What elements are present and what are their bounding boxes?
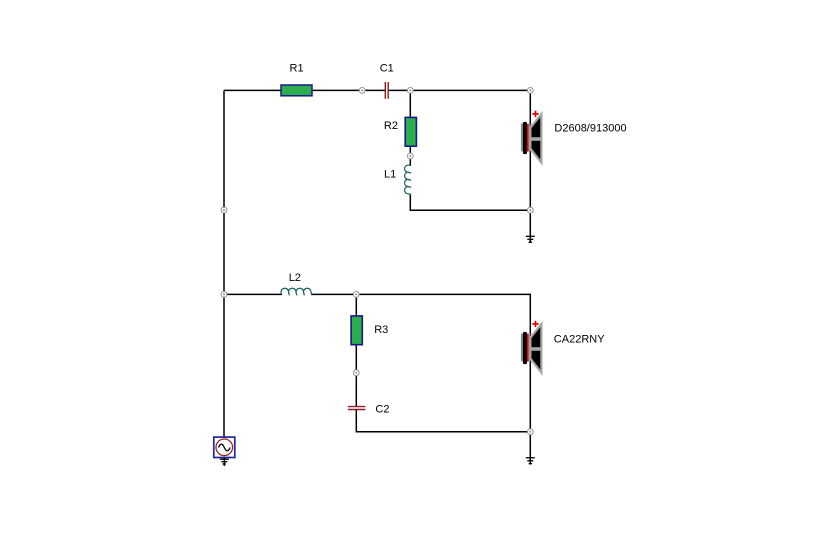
wire: woofer bottom node to ground	[529, 432, 531, 465]
svg-text:L2: L2	[289, 272, 301, 284]
wire: R2 to node C	[409, 146, 411, 156]
svg-text:D2608/913000: D2608/913000	[554, 123, 626, 135]
node: left rail mid	[221, 207, 227, 213]
wire: left rail bottom segment to source	[223, 294, 225, 437]
wire: node D down to R3	[355, 294, 357, 316]
AC source V1	[214, 437, 235, 457]
wire: L2 branch node to L2	[224, 293, 282, 295]
node: tweeter top	[527, 88, 533, 94]
wire: node E to C2	[355, 373, 357, 407]
node B	[407, 88, 413, 94]
wire: node B to tweeter top node	[410, 89, 530, 91]
wire: L1 down and right to tweeter bottom node	[410, 194, 530, 210]
node: left rail / L2 branch	[221, 292, 227, 298]
capacitor C2	[348, 407, 365, 410]
wire top rail: left corner to R1	[224, 89, 282, 91]
wire: tweeter vertical (top node to bottom node)	[529, 90, 531, 210]
svg-text:C1: C1	[380, 63, 394, 75]
node D (R3 branch)	[353, 292, 359, 298]
resistor R3	[351, 316, 362, 345]
svg-text:C2: C2	[375, 404, 389, 416]
speaker LS2 (woofer)	[521, 321, 542, 373]
node C (between R2 and L1)	[407, 153, 413, 159]
wire: node C to L1	[409, 156, 411, 166]
node: woofer bottom junction	[527, 429, 533, 435]
node: tweeter bottom junction	[527, 207, 533, 213]
wire: node D to woofer top corner and down	[356, 294, 530, 431]
svg-text:CA22RNY: CA22RNY	[554, 333, 605, 345]
speaker LS1 (tweeter)	[521, 111, 542, 163]
inductor L1	[405, 165, 412, 194]
svg-text:R2: R2	[384, 120, 398, 132]
wire: tweeter bottom node to ground	[529, 210, 531, 243]
svg-text:R1: R1	[290, 63, 304, 75]
node A	[359, 88, 365, 94]
wire: node B down to R2	[409, 90, 411, 117]
capacitor C1	[385, 82, 388, 99]
node E (between R3 and C2)	[353, 370, 359, 376]
wire: left rail top segment	[223, 90, 225, 210]
wire: left rail second segment	[223, 210, 225, 294]
ground (AC source)	[220, 457, 229, 466]
wire: R3 to node E	[355, 345, 357, 373]
ground (woofer)	[526, 458, 535, 464]
wire: C1 to node B	[388, 89, 410, 91]
inductor L2	[281, 288, 312, 295]
wire: C2 down and right to woofer bottom node	[356, 410, 530, 432]
svg-text:R3: R3	[374, 324, 388, 336]
resistor R2	[405, 117, 416, 146]
wire: L2 to node D	[312, 293, 357, 295]
resistor R1	[281, 85, 312, 96]
svg-text:L1: L1	[384, 169, 396, 181]
wire: R1 to node A	[312, 89, 362, 91]
wire: node A to C1	[362, 89, 385, 91]
ground (tweeter)	[526, 236, 535, 242]
